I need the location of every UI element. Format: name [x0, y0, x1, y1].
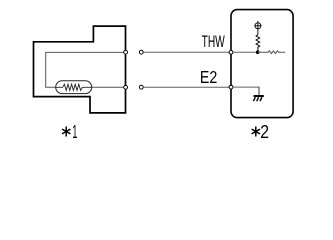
wire from thermistor to pin 2: [92, 86, 126, 88]
pull-up resistor zigzag (vertical): [256, 35, 260, 53]
wire E2: [143, 86, 229, 88]
svg-text:2: 2: [260, 121, 269, 142]
ECM terminal THW: [229, 50, 233, 54]
ECM terminal E2: [229, 85, 233, 89]
wire THW: [143, 51, 229, 53]
harness terminal circle E2: [139, 85, 143, 89]
inner circuit loop wire: [46, 52, 126, 87]
thermistor resistor zigzag: [56, 84, 92, 90]
svg-text:E2: E2: [200, 67, 217, 87]
wire E2 inside ECM: [233, 86, 260, 88]
harness terminal circle THW: [139, 50, 143, 54]
power symbol (circle with cross): [254, 21, 261, 35]
wire THW inside ECM: [233, 51, 258, 53]
ground: [253, 96, 263, 101]
sensor connector outline *1: [34, 26, 126, 113]
label *1: [62, 121, 77, 142]
resistor zigzag (horizontal, to ADC): [258, 51, 286, 54]
thermistor oval: [56, 81, 92, 94]
svg-text:THW: THW: [202, 33, 226, 51]
wire E2 drop to ground: [258, 87, 260, 96]
label *2: [252, 121, 269, 142]
terminal pin 2 (sensor side, E2): [124, 85, 128, 89]
ECM box *2: [231, 10, 293, 118]
junction node (THW): [256, 50, 260, 54]
terminal pin 1 (sensor side, THW): [124, 50, 128, 54]
svg-text:1: 1: [72, 121, 77, 142]
